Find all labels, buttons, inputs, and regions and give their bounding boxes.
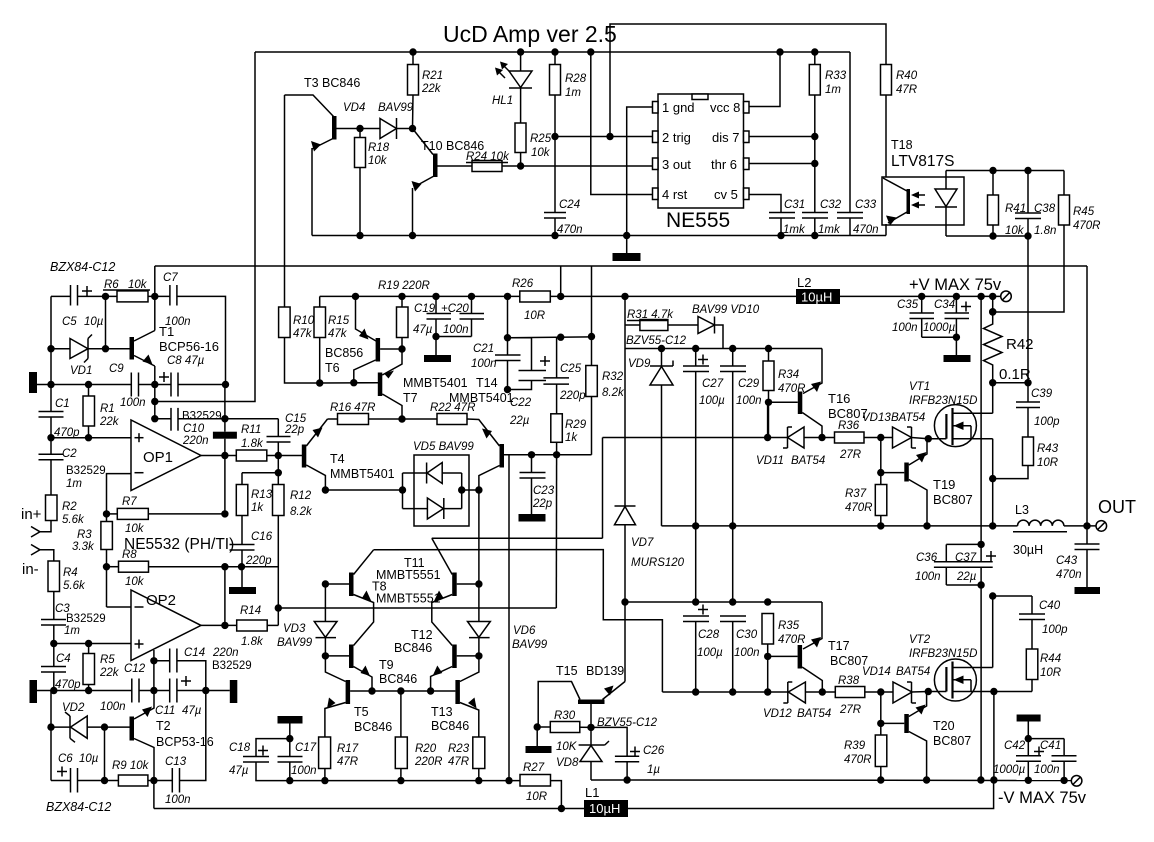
capacitor C30 100n (720, 615, 746, 617)
svg-text:C6: C6 (58, 753, 73, 765)
wire pin7 dis (749, 136, 815, 138)
svg-text:IRFB23N15D: IRFB23N15D (909, 395, 977, 407)
diode VD7 MURS120 (624, 349, 626, 507)
capacitor C2 1m (50, 438, 52, 455)
svg-text:C8 47µ: C8 47µ (167, 355, 205, 367)
terminal OUT (1096, 521, 1107, 532)
pin 7 box (744, 131, 750, 143)
svg-text:47R: 47R (448, 756, 469, 768)
wire OP1 -input (107, 474, 132, 514)
node R18 bottom (356, 232, 363, 239)
node C38 top (1024, 167, 1031, 174)
svg-text:BC846: BC846 (394, 641, 432, 655)
svg-text:10µ: 10µ (84, 316, 104, 328)
node R6/C7/T1 (151, 293, 158, 300)
svg-text:27R: 27R (839, 449, 861, 461)
svg-text:3 out: 3 out (662, 157, 691, 172)
capacitor C14 220n (153, 650, 155, 691)
diode VD6 BAV99 (478, 584, 480, 622)
node R6 left (102, 293, 109, 300)
svg-text:4 rst: 4 rst (662, 187, 688, 202)
svg-text:10R: 10R (526, 791, 547, 803)
capacitor C27 100u (695, 349, 697, 367)
resistor R33 1m (809, 65, 820, 96)
svg-text:NE555: NE555 (666, 209, 730, 232)
svg-text:C14: C14 (184, 647, 205, 659)
svg-text:5.6k: 5.6k (63, 580, 86, 592)
wire top rail y52 (255, 51, 850, 53)
wire VD2 to R9 riser (104, 727, 106, 780)
svg-text:T1: T1 (159, 324, 174, 339)
svg-text:22k: 22k (99, 416, 120, 428)
resistor R36 27R (835, 432, 865, 443)
wire pin1 gnd (627, 107, 653, 236)
svg-text:VD11: VD11 (756, 455, 784, 467)
resistor R37 470R (875, 485, 887, 516)
wire C25/R32 top rail (508, 336, 592, 339)
wire y602 low gate rail (625, 601, 822, 603)
capacitor C3 1m (41, 619, 66, 621)
svg-text:BAV99: BAV99 (512, 639, 548, 651)
wire y692 low gate rail (662, 691, 787, 693)
wire -V rail (591, 779, 1071, 782)
resistor R41 10k (988, 195, 999, 225)
svg-text:thr 6: thr 6 (711, 157, 737, 172)
wire main rail y296 mid part (550, 295, 796, 297)
zener VD8 (590, 727, 592, 745)
svg-text:470n: 470n (557, 224, 583, 236)
wire y418.7 C10 branch (155, 418, 171, 420)
transistor T13 BC846 (455, 680, 460, 704)
svg-text:22µ: 22µ (509, 415, 530, 427)
node VD1/x51 (47, 345, 54, 352)
svg-text:C35: C35 (897, 299, 919, 311)
node VD1/R6 riser (102, 345, 109, 352)
svg-text:OP2: OP2 (146, 592, 176, 609)
svg-text:NE5532 (PH/TI): NE5532 (PH/TI) (124, 536, 234, 553)
zener VD2 (50, 691, 52, 728)
svg-text:1µ: 1µ (647, 764, 660, 776)
node R1 top (85, 381, 92, 388)
capacitor C9 100n (130, 373, 132, 397)
capacitor C34 1000u (953, 293, 960, 300)
transistor T9 BC846 (349, 645, 354, 669)
svg-text:R22 47R: R22 47R (430, 402, 475, 414)
svg-text:R40: R40 (896, 70, 918, 82)
node T8 base (322, 580, 329, 587)
resistor R38 27R (835, 687, 865, 698)
svg-text:VT2: VT2 (909, 634, 931, 646)
svg-text:R3: R3 (77, 529, 92, 541)
svg-text:R43: R43 (1037, 443, 1059, 455)
svg-text:T4: T4 (330, 452, 345, 466)
wire mid riser x509 (508, 455, 510, 781)
svg-text:R1: R1 (100, 403, 115, 415)
svg-text:T5: T5 (354, 705, 369, 719)
diode VD11 BAT54 (788, 427, 805, 448)
svg-text:UcD Amp ver 2.5: UcD Amp ver 2.5 (443, 21, 617, 47)
svg-text:VD6: VD6 (513, 625, 536, 637)
svg-text:HL1: HL1 (492, 95, 513, 107)
svg-text:10R: 10R (1040, 667, 1061, 679)
svg-text:T16: T16 (828, 391, 850, 406)
svg-text:10µH: 10µH (589, 801, 620, 816)
svg-text:100n: 100n (443, 324, 469, 336)
svg-text:BD139: BD139 (586, 664, 624, 678)
svg-text:3.3k: 3.3k (72, 541, 95, 553)
terminal -V (1071, 776, 1082, 787)
svg-text:47k: 47k (328, 328, 348, 340)
wire T14 collector riser (478, 490, 480, 584)
ground bar below R30 (536, 727, 538, 746)
node T16 collector (818, 434, 825, 441)
terminal +V (1001, 291, 1012, 302)
resistor R32 8.2k (586, 366, 598, 397)
svg-text:vcc 8: vcc 8 (710, 100, 740, 115)
svg-text:C22: C22 (510, 397, 532, 409)
node trig/R25 (551, 133, 558, 140)
svg-text:VD5 BAV99: VD5 BAV99 (413, 441, 474, 453)
wire VT1 source drop (992, 439, 994, 526)
svg-text:T14: T14 (476, 376, 498, 390)
svg-text:VD8: VD8 (556, 757, 579, 769)
node C27 top (692, 345, 699, 352)
pin 3 box (653, 158, 659, 170)
svg-text:VD4: VD4 (343, 102, 365, 114)
node gnd stem (623, 232, 630, 239)
resistor R14 1.8k (237, 620, 268, 631)
svg-text:R27: R27 (523, 762, 545, 774)
svg-text:470R: 470R (1073, 220, 1101, 232)
node R24/R25 (517, 162, 524, 169)
capacitor C15 22p (277, 419, 279, 437)
capacitor C7 100n (169, 285, 171, 306)
transistor T10 (433, 154, 438, 178)
svg-text:47µ: 47µ (413, 324, 433, 336)
svg-text:C23: C23 (533, 485, 555, 497)
wire y608 long (278, 607, 556, 609)
svg-text:R11: R11 (241, 424, 261, 436)
capacitor C26 1u (591, 727, 627, 756)
transistor T3 (332, 116, 337, 140)
svg-text:-V MAX 75v: -V MAX 75v (998, 789, 1087, 807)
MOSFET VT1 IRFB23N15D (934, 405, 976, 447)
node T11 base (475, 580, 482, 587)
svg-text:T17: T17 (828, 639, 850, 653)
svg-text:BC807: BC807 (933, 734, 971, 748)
svg-text:BZV55-C12: BZV55-C12 (626, 335, 687, 347)
svg-text:BC846: BC846 (431, 719, 469, 733)
node T3 base junction (356, 125, 363, 132)
node R41 top (989, 167, 996, 174)
svg-text:C4: C4 (56, 653, 71, 665)
node +V riser x992 (989, 293, 996, 300)
svg-text:in-: in- (22, 561, 39, 578)
svg-text:C31: C31 (784, 199, 805, 211)
wire gate-drive mid rail y437 (603, 437, 788, 439)
svg-text:220n: 220n (212, 647, 239, 659)
node R34-VD11 riser (764, 434, 771, 441)
svg-text:R30: R30 (554, 710, 576, 722)
svg-text:C37: C37 (955, 552, 977, 564)
node T10 emitter on gnd wire (409, 232, 416, 239)
node thr junction (811, 160, 818, 167)
svg-text:BAV99: BAV99 (277, 637, 313, 649)
resistor R10 47k (279, 307, 291, 338)
capacitor C5 10u (70, 285, 72, 306)
svg-text:30µH: 30µH (1013, 543, 1043, 557)
wire y538 cross-coupling (432, 537, 603, 539)
node R21 top (409, 48, 416, 55)
wire x154 lower segment (154, 366, 156, 419)
transistor T7 MMBT5401 (382, 349, 402, 375)
svg-text:VT1: VT1 (909, 381, 930, 393)
resistor R42 0.1R (sense) (992, 296, 994, 311)
svg-text:VD2: VD2 (62, 702, 85, 714)
phototransistor T18 (907, 189, 911, 214)
op-amp OP1 (131, 420, 201, 491)
capacitor C16 220p (230, 544, 255, 546)
capacitor C18 47u (243, 756, 269, 758)
svg-text:C27: C27 (702, 378, 724, 390)
capacitor C38 1.8n (1027, 171, 1029, 214)
svg-text:B32529: B32529 (212, 660, 252, 672)
svg-text:10µH: 10µH (801, 290, 832, 305)
wire T18 bottom (946, 235, 1028, 237)
wire y549.8 cross-coupling (374, 550, 663, 692)
resistor R15 47k (314, 307, 326, 338)
node x51 y384 (47, 381, 54, 388)
LED HL1 (520, 52, 522, 71)
diode VD4 BAV99 (380, 119, 397, 139)
svg-text:B32529: B32529 (182, 411, 222, 423)
svg-text:100µ: 100µ (699, 395, 725, 407)
svg-text:R32: R32 (602, 371, 624, 383)
node dis junction (811, 133, 818, 140)
svg-text:T6: T6 (325, 361, 340, 375)
transistor T17 BC807 (803, 602, 822, 649)
svg-text:22k: 22k (421, 83, 442, 95)
svg-text:BAT54: BAT54 (896, 666, 930, 678)
svg-text:R39: R39 (844, 740, 866, 752)
wire C40 branch y596 (993, 595, 1032, 597)
svg-text:T3 BC846: T3 BC846 (304, 76, 360, 90)
wire upper rail y24 (610, 24, 886, 137)
node T1 emitter (151, 381, 158, 388)
ground bar above C17 (278, 716, 303, 724)
svg-text:2 trig: 2 trig (662, 130, 691, 145)
svg-text:100n: 100n (165, 794, 191, 806)
transistor T16 BC807 (803, 349, 822, 394)
svg-text:+V MAX 75v: +V MAX 75v (909, 276, 1002, 294)
svg-text:+C20: +C20 (441, 303, 469, 315)
svg-text:C41: C41 (1040, 740, 1061, 752)
resistor R43 10R (1023, 437, 1034, 466)
pin 5 box (744, 188, 750, 200)
svg-text:L1: L1 (585, 785, 599, 800)
svg-text:MMBT5401: MMBT5401 (403, 376, 468, 390)
svg-text:470n: 470n (1056, 569, 1082, 581)
diode VD3 BAV99 (324, 584, 326, 622)
node C31 bottom (777, 232, 784, 239)
node R33 top (811, 48, 818, 55)
svg-text:22p: 22p (532, 498, 553, 510)
svg-text:R34: R34 (778, 369, 799, 381)
svg-text:BC846: BC846 (354, 720, 392, 734)
svg-text:1mk: 1mk (783, 224, 806, 236)
resistor R26 10R (520, 291, 551, 302)
rail bar right lower (230, 680, 238, 703)
svg-text:T18: T18 (891, 138, 913, 152)
wire T7 base rail y383 (320, 382, 378, 384)
capacitor C43 470n (1086, 526, 1088, 544)
ground bar below C34/C35 (922, 337, 957, 355)
resistor R21 22k (408, 65, 419, 96)
svg-text:R10: R10 (293, 315, 315, 327)
svg-text:BZX84-C12: BZX84-C12 (46, 800, 111, 814)
svg-text:10k: 10k (125, 576, 145, 588)
svg-text:100n: 100n (291, 765, 317, 777)
node R45 wire to +V riser (989, 308, 996, 315)
capacitor C36 100n / C37 22u (946, 543, 981, 545)
svg-text:1 gnd: 1 gnd (662, 100, 695, 115)
wire OP2 feedback riser (224, 567, 226, 626)
wire pin8 vcc (749, 52, 780, 107)
svg-text:T7: T7 (403, 391, 418, 405)
node R43 to source riser (989, 475, 996, 482)
resistor R1 22k (83, 396, 95, 426)
wire R36 node to R37/T19 (880, 438, 882, 473)
wire long rail y266 (155, 265, 1087, 267)
svg-text:OUT: OUT (1098, 497, 1136, 517)
diode VD14 BAT54 (893, 682, 912, 703)
svg-text:C24: C24 (559, 199, 580, 211)
svg-text:T19: T19 (933, 477, 955, 492)
svg-text:BAV99 VD10: BAV99 VD10 (692, 304, 760, 316)
svg-text:R33: R33 (825, 70, 847, 82)
capacitor C32 1mk (802, 212, 828, 214)
resistor R39 470R (875, 735, 887, 767)
svg-text:in+: in+ (21, 506, 42, 523)
wire y266 drop to main wire (560, 266, 562, 296)
svg-text:R28: R28 (565, 73, 587, 85)
resistor R9 10k (118, 775, 147, 786)
svg-text:R6: R6 (104, 279, 119, 291)
svg-text:1.8k: 1.8k (241, 636, 264, 648)
node T19 base junction (877, 469, 884, 476)
svg-text:T20: T20 (933, 719, 955, 733)
svg-text:100n: 100n (120, 397, 146, 409)
svg-text:R14: R14 (240, 605, 261, 617)
node R41 bottom (989, 232, 996, 239)
capacitor C1 470p (50, 385, 52, 412)
wire T3 collector drop x284 (284, 95, 286, 307)
svg-text:100µ: 100µ (697, 647, 723, 659)
svg-text:C28: C28 (698, 629, 720, 641)
resistor R25 10k (515, 123, 526, 153)
resistor R5 22k (83, 654, 95, 685)
svg-text:470R: 470R (844, 754, 872, 766)
wire out pin3 (502, 165, 653, 167)
svg-text:MMBT5401: MMBT5401 (330, 467, 395, 481)
svg-text:R5: R5 (100, 654, 115, 666)
wire R35 to VD12 rail riser (767, 656, 769, 692)
svg-text:47R: 47R (896, 84, 917, 96)
wire OP2 output (201, 624, 237, 626)
wire x154 upper segment (154, 266, 156, 331)
riser R34 to VD11 wire (767, 402, 769, 437)
capacitor C28 100u (683, 615, 709, 617)
node R21 bottom (409, 125, 416, 132)
resistor R19 220R (397, 307, 409, 338)
resistor R20 220R (395, 737, 407, 769)
resistor R4 5.6k (48, 561, 60, 592)
svg-text:C16: C16 (251, 531, 273, 543)
op-amp/IC NE555 body (658, 94, 744, 208)
svg-text:BCP56-16: BCP56-16 (159, 339, 219, 354)
svg-text:47µ: 47µ (182, 705, 202, 717)
svg-text:C11: C11 (155, 705, 175, 717)
svg-text:R20: R20 (415, 743, 437, 755)
svg-text:VD7: VD7 (631, 537, 654, 549)
resistor R18 10k (355, 138, 366, 168)
svg-text:1k: 1k (565, 432, 578, 444)
capacitor C24 470n (554, 137, 556, 213)
pin 2 box (653, 131, 659, 143)
capacitor C40 100p (1031, 596, 1033, 614)
svg-text:R42: R42 (1006, 336, 1034, 353)
pin 6 box (744, 158, 750, 170)
svg-text:100n: 100n (471, 358, 497, 370)
wire pin6 thr (749, 163, 815, 165)
svg-text:470R: 470R (845, 502, 873, 514)
node vcc riser top (776, 48, 783, 55)
svg-text:10k: 10k (128, 279, 148, 291)
svg-text:C10: C10 (183, 423, 205, 435)
svg-text:10K: 10K (556, 741, 578, 753)
pin 8 box (744, 102, 750, 114)
svg-text:R13: R13 (251, 489, 273, 501)
svg-text:R37: R37 (845, 488, 867, 500)
svg-text:C19: C19 (414, 303, 436, 315)
svg-text:C43: C43 (1056, 555, 1078, 567)
svg-text:BC807: BC807 (933, 492, 973, 507)
capacitor C21 100n (507, 296, 509, 355)
node R36/VD13 (877, 434, 884, 441)
wire trig pin2 (555, 136, 653, 138)
svg-text:T2: T2 (156, 719, 171, 733)
node main/riser junction (557, 293, 564, 300)
wire rst pin4 riser (591, 52, 653, 195)
svg-text:22µ: 22µ (956, 571, 977, 583)
resistor R40 47R (881, 65, 892, 96)
svg-text:1000µ: 1000µ (993, 764, 1026, 776)
wire T3 base (337, 128, 381, 130)
svg-text:C18: C18 (229, 742, 251, 754)
ground bar below C19/C20 (436, 336, 472, 338)
svg-text:C5: C5 (62, 316, 77, 328)
wire left drop x255 to y401 (155, 52, 255, 402)
resistor R12 8.2k (273, 485, 285, 516)
svg-text:1.8k: 1.8k (241, 438, 264, 450)
resistor R7 10k feedback (107, 513, 118, 515)
svg-text:C39: C39 (1031, 388, 1053, 400)
transistor T2 BCP53-16 (130, 717, 135, 741)
svg-text:1k: 1k (251, 502, 264, 514)
svg-text:470n: 470n (853, 224, 879, 236)
wire y690.5 (37, 690, 132, 692)
rail bar left lower (30, 680, 38, 703)
